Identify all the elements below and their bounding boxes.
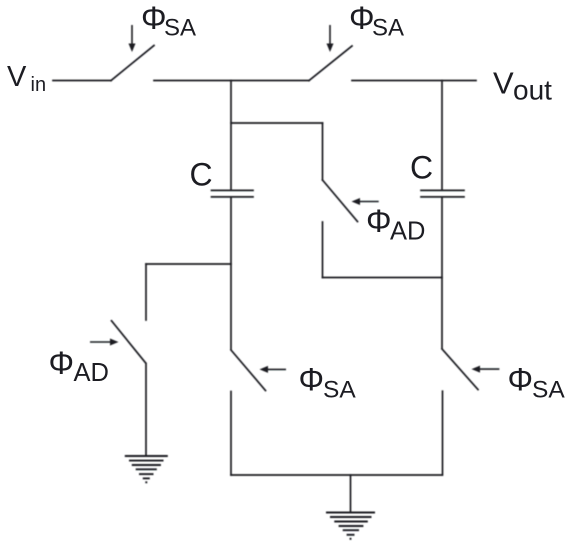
svg-text:Φ: Φ xyxy=(366,203,392,239)
wire S4 lower lead to ground xyxy=(145,364,147,456)
wire left branch horizontal xyxy=(146,263,231,265)
arrow A2 down (S2 control) xyxy=(327,25,334,52)
label Vin xyxy=(7,61,46,96)
ground G2 (bottom center) xyxy=(326,513,375,539)
svg-text:Φ: Φ xyxy=(141,0,167,36)
arrow A3 left (S3 control) xyxy=(352,198,379,205)
wire branch at y123 xyxy=(231,122,323,124)
svg-text:SA: SA xyxy=(532,376,565,403)
svg-text:V: V xyxy=(493,65,514,100)
wire node A down to C1 xyxy=(230,81,232,191)
label phi_SA (top-left switch) xyxy=(141,0,196,41)
svg-text:C: C xyxy=(410,149,433,185)
wire C2 top lead xyxy=(441,81,443,191)
wire S6 lower lead xyxy=(442,391,444,475)
wire S3 upper lead xyxy=(322,123,324,180)
svg-text:V: V xyxy=(7,61,27,93)
switch S4 phi_AD blade (left) xyxy=(112,321,146,363)
svg-text:SA: SA xyxy=(164,14,196,41)
label Vout xyxy=(493,65,552,105)
capacitor C1 plates xyxy=(212,190,254,197)
svg-text:Φ: Φ xyxy=(349,0,375,36)
svg-text:Φ: Φ xyxy=(299,361,325,397)
svg-text:Φ: Φ xyxy=(508,361,534,397)
switch S1 phi_SA blade (top-left) xyxy=(111,46,154,81)
svg-text:AD: AD xyxy=(74,359,109,387)
svg-text:out: out xyxy=(513,75,552,106)
label phi_SA (top-right switch) xyxy=(349,0,404,41)
arrow A1 down (S1 control) xyxy=(129,25,136,52)
wire Vin lead xyxy=(53,80,111,82)
svg-text:AD: AD xyxy=(390,218,425,246)
wire ground stub xyxy=(350,475,352,512)
wire S3 lower lead xyxy=(322,222,324,278)
svg-text:SA: SA xyxy=(372,14,404,41)
wire S5 lower lead xyxy=(230,392,232,476)
wire top rail middle xyxy=(154,80,309,82)
svg-text:C: C xyxy=(190,156,213,192)
wire left branch vertical xyxy=(145,264,147,320)
arrow A6 left (S6 control) xyxy=(472,366,500,373)
label phi_SA (bottom right switch) xyxy=(508,361,566,403)
svg-text:SA: SA xyxy=(323,376,356,403)
svg-text:Φ: Φ xyxy=(49,345,75,381)
arrow A4 right (S4 control) xyxy=(90,339,119,346)
wire C1 bottom down to S5 xyxy=(230,197,232,350)
switch S3 phi_AD blade (middle) xyxy=(323,180,358,222)
label phi_SA (bottom middle switch) xyxy=(299,361,357,403)
capacitor C2 plates xyxy=(421,190,464,197)
switch S2 phi_SA blade (top-right) xyxy=(309,46,352,81)
wire bottom rail xyxy=(231,474,442,476)
wire C2 bottom down to S6 xyxy=(441,197,443,349)
switch S5 phi_SA blade (bottom middle) xyxy=(231,350,266,391)
wire top rail right xyxy=(352,80,476,82)
switch S6 phi_SA blade (bottom right) xyxy=(442,349,478,390)
ground G1 (left) xyxy=(125,456,168,482)
svg-text:in: in xyxy=(31,74,47,96)
label phi_AD (middle switch) xyxy=(366,203,425,246)
wire mid horizontal to C2 bottom xyxy=(323,277,443,279)
arrow A5 left (S5 control) xyxy=(260,366,287,373)
label phi_AD (left switch) xyxy=(49,345,109,387)
